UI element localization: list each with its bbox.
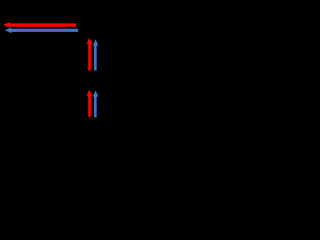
lower blue vertical vector pointing up xyxy=(93,90,98,117)
blue horizontal vector pointing left xyxy=(5,27,78,33)
upper blue vertical vector pointing up xyxy=(93,39,98,70)
upper red vertical vector pointing up xyxy=(87,38,93,71)
red horizontal vector pointing left xyxy=(3,22,76,28)
lower red vertical vector pointing up xyxy=(87,89,93,116)
